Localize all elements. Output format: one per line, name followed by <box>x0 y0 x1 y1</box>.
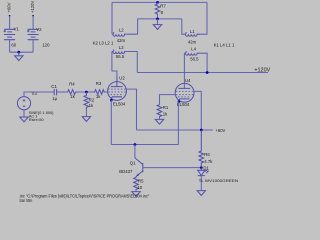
junction node grid divider <box>85 91 88 94</box>
battery V2 <box>27 27 50 47</box>
junction dot R6 top <box>200 129 203 132</box>
top rail <box>112 1 207 3</box>
svg-text:10: 10 <box>137 185 142 190</box>
ground (R5) <box>132 190 140 196</box>
svg-text:56.5: 56.5 <box>190 57 199 62</box>
transistor Q1 <box>119 145 201 177</box>
LED D1 <box>198 168 209 176</box>
resistor R5 <box>134 177 144 191</box>
svg-text:K1 L4 L1 1: K1 L4 L1 1 <box>214 42 235 47</box>
svg-text:V2: V2 <box>36 27 42 32</box>
svg-text:BD437: BD437 <box>119 169 133 174</box>
wire L4 left lead down to U4 plate <box>183 53 185 88</box>
wire R3 to U2 grid <box>105 91 108 93</box>
svg-text:120: 120 <box>42 42 50 47</box>
node +120V label (rotated, V2 top) <box>30 1 35 17</box>
wire R7 bottom <box>157 16 159 19</box>
svg-text:.inc "C:\Program Files (x86)\L: .inc "C:\Program Files (x86)\LTC\LTspice… <box>19 194 150 199</box>
svg-text:C1: C1 <box>51 84 57 89</box>
pentode U4 <box>175 78 194 107</box>
wire L4 right lead to +120V rail <box>199 53 207 72</box>
wire L2 right lead to rail2 <box>126 19 138 34</box>
ground (D1) <box>197 191 205 196</box>
svg-text:R3: R3 <box>96 81 102 86</box>
svg-text:R6: R6 <box>204 152 210 157</box>
resistor R2 <box>84 92 95 109</box>
wire U2 cathode down <box>110 100 112 144</box>
resistor R1 <box>157 105 169 119</box>
inductor L3 <box>112 45 126 59</box>
resistor R6 <box>199 130 213 166</box>
wire L3 left lead to U2 plate <box>112 52 117 76</box>
wire D1 to ground <box>200 176 202 191</box>
inductor L4 <box>184 47 199 62</box>
svg-text:Q1: Q1 <box>130 161 136 166</box>
inductor L2 <box>112 28 126 43</box>
ground (R2) <box>82 109 90 121</box>
inductor L1 <box>184 29 200 45</box>
wire U4 cathode down <box>177 102 179 145</box>
svg-text:+120V: +120V <box>254 68 271 74</box>
junction dot L4 tap <box>206 71 209 74</box>
svg-text:+120V: +120V <box>30 1 35 13</box>
svg-text:K2 L3 L2 1: K2 L3 L2 1 <box>93 40 114 45</box>
wire V2 top lead <box>32 16 34 29</box>
junction dot Q1 collector <box>134 143 137 146</box>
svg-text:EL504: EL504 <box>113 101 126 106</box>
battery V1 <box>4 26 20 47</box>
svg-text:42m: 42m <box>188 40 197 45</box>
ground (battery mid) <box>15 52 23 60</box>
wire U2 screen stub <box>126 89 136 130</box>
rail 2 <box>138 18 182 20</box>
svg-text:Rser=50: Rser=50 <box>29 117 45 122</box>
wire L1 left lead from rail2 <box>182 19 185 34</box>
+120V rail <box>137 72 268 74</box>
svg-text:R1: R1 <box>163 105 169 110</box>
junction dot U4 cathode <box>178 100 181 103</box>
wire R4 to node <box>77 91 94 93</box>
svg-text:L2: L2 <box>119 28 124 33</box>
wire L2 left lead up to top rail <box>111 2 113 34</box>
svg-text:R7: R7 <box>160 3 166 8</box>
pentode U2 <box>108 75 127 106</box>
svg-text:V1: V1 <box>14 26 20 31</box>
junction dot R7 top <box>156 1 159 4</box>
wire V1 bottom lead <box>9 40 11 53</box>
wire V1 top lead <box>9 16 11 29</box>
resistor R3 <box>93 81 105 99</box>
svg-text:.tran 50m: .tran 50m <box>19 198 33 203</box>
svg-text:+60V: +60V <box>216 128 227 133</box>
ground (R1) <box>155 118 163 124</box>
wire C1 to R4 <box>57 91 67 93</box>
junction dot R7 bottom <box>156 18 159 21</box>
svg-text:U4: U4 <box>185 78 191 83</box>
svg-text:L4: L4 <box>191 47 196 52</box>
svg-text:56.5: 56.5 <box>116 54 125 59</box>
svg-text:R5: R5 <box>138 179 144 184</box>
svg-text:60: 60 <box>11 42 16 47</box>
svg-text:42m: 42m <box>117 38 126 43</box>
wire V3 top to C1 <box>24 92 54 97</box>
wire L1 right lead to top rail <box>200 2 207 34</box>
junction dot batteries <box>17 51 20 54</box>
resistor R4 <box>66 82 76 99</box>
junction dot D1 top <box>200 166 203 169</box>
svg-text:U2: U2 <box>119 75 125 80</box>
svg-text:L3: L3 <box>119 45 124 50</box>
cathode rail <box>111 144 178 146</box>
junction dot U2 cathode <box>110 99 113 102</box>
ground (rail 2) <box>153 19 161 30</box>
+60V rail <box>137 129 213 131</box>
wire U4 screen stub to R6 column <box>194 91 201 130</box>
svg-text:R4: R4 <box>69 82 75 87</box>
svg-text:L1: L1 <box>190 29 195 34</box>
svg-text:+60V: +60V <box>6 2 11 12</box>
resistor R7 <box>155 2 166 15</box>
wire battery bottoms join <box>10 51 33 53</box>
capacitor C1 <box>51 84 57 101</box>
svg-text:4.7k: 4.7k <box>204 159 213 164</box>
svg-text:R2: R2 <box>89 97 95 102</box>
voltage source V3 (sine) <box>17 91 54 122</box>
node +60V label (rotated, V1 top) <box>6 2 11 16</box>
wire L3 right lead to +120V rail <box>126 52 138 73</box>
svg-text:TL WV1000GREEN: TL WV1000GREEN <box>199 178 239 183</box>
ground (V3) <box>20 110 28 122</box>
wire V2 bottom lead <box>32 40 34 53</box>
svg-text:1µ: 1µ <box>52 96 57 101</box>
wire U4 grid to R1 <box>160 95 176 105</box>
